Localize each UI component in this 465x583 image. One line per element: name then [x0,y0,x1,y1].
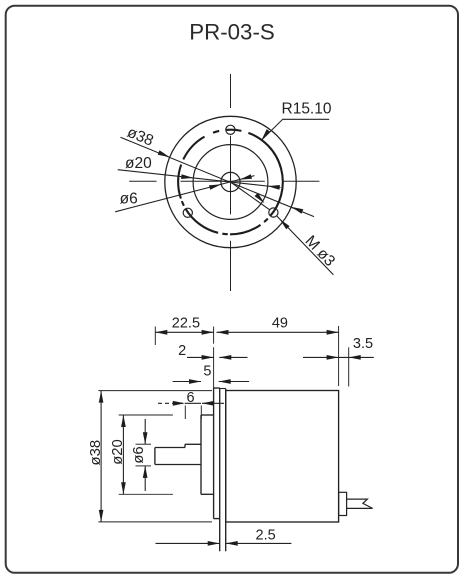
svg-text:2.5: 2.5 [256,527,276,543]
top view: vertical centerline [230,74,232,108]
svg-text:2: 2 [178,343,186,359]
dimension ø6 leader line [115,176,254,212]
svg-text:3.5: 3.5 [353,336,373,352]
dimension 6 (collar length, dashed tail) [158,402,185,404]
dimension 2 (plate thickness) [187,356,214,358]
front plate (2mm) [213,388,215,519]
shaft collar ø6 x6 [185,443,201,445]
svg-text:R15.10: R15.10 [282,100,332,117]
svg-text:ø38: ø38 [88,440,104,466]
shaft circle ø6 [221,172,240,191]
side view: body rectangle [226,391,339,523]
dimension 3.5 (connector) [303,356,349,358]
extension lines row1 [154,327,156,346]
top view: horizontal centerline [129,180,156,182]
dimension 5 (boss length) [173,381,201,383]
cable with break symbol [347,499,373,508]
dimension ø38 leader line [121,137,315,216]
dimension ø20 vertical [122,415,124,494]
dimension M ø3 leader segment from center through hole [231,182,270,210]
svg-text:PR-03-S: PR-03-S [189,19,275,44]
dimension ø20 leader line [118,170,281,188]
boss ø20 x5 with extension lines [119,414,173,416]
mounting hole top [226,125,235,134]
dimension ø20 arrows [181,174,193,179]
mounting disc lines (2.5mm, extend below body) [219,388,221,551]
dimension M ø3 leader to label [255,193,265,203]
outer circle body ø38 [165,116,296,247]
mounting hole lower-right [269,208,278,217]
svg-text:ø20: ø20 [110,439,126,465]
svg-text:ø6: ø6 [131,446,147,463]
shaft tip [155,447,185,449]
svg-text:22.5: 22.5 [172,316,200,332]
circle ø20 [193,145,268,220]
svg-text:5: 5 [203,363,211,379]
connector box [339,492,347,515]
dimension R15.10 leader [262,119,330,140]
dimension 22.5 [155,331,213,333]
dimension 2.5 (disc thickness) [156,542,220,544]
dimension ø6 arrows [209,184,221,189]
dimension ø38 vertical [100,391,102,522]
svg-text:ø20: ø20 [125,155,152,172]
svg-text:49: 49 [272,316,288,332]
svg-text:6: 6 [186,390,194,406]
dimension ø38 arrows [158,150,170,157]
dimension ø6 vertical [144,419,146,444]
bolt circle R15.10 dash-dot [226,130,241,131]
mounting hole lower-left [183,208,192,217]
dimension 49 [217,331,339,333]
svg-text:ø6: ø6 [120,190,138,207]
